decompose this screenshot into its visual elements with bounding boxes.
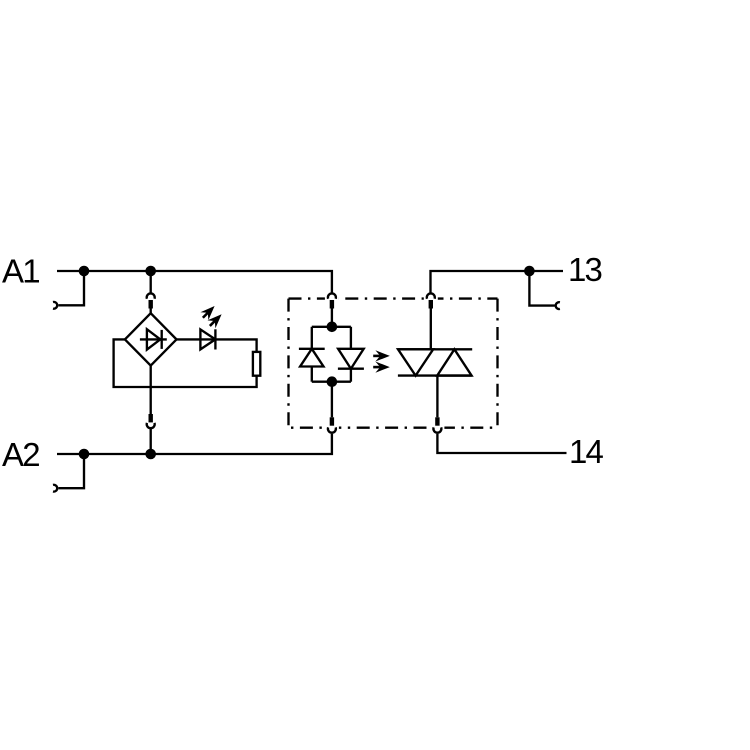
triac top line xyxy=(398,348,473,350)
wire loop top xyxy=(177,339,257,352)
triac left triangle xyxy=(398,349,433,375)
wire bridge bottom xyxy=(150,366,152,414)
svg-text:13: 13 xyxy=(568,251,602,288)
connector pin top triac xyxy=(429,300,433,309)
connector socket bottom input xyxy=(328,427,336,432)
svg-text:A1: A1 xyxy=(2,253,39,290)
input diode left bar xyxy=(299,348,325,350)
connector socket top triac xyxy=(427,293,435,298)
wire A2 rail xyxy=(57,433,332,454)
input diode right bar xyxy=(338,368,364,370)
wire bridge to A2 rail xyxy=(150,429,152,454)
triac bottom line xyxy=(398,374,472,376)
socket 13 terminal xyxy=(556,302,560,309)
connector socket bottom bridge xyxy=(147,423,155,428)
bridge inner diode bar xyxy=(161,330,163,349)
wire A2 test stub xyxy=(58,454,84,488)
optocoupler box right edge xyxy=(496,299,498,428)
wire loop left xyxy=(114,339,257,387)
connector socket top input xyxy=(328,293,336,298)
node input top xyxy=(327,322,338,333)
connector socket bottom triac xyxy=(433,427,441,432)
connector pin top bridge xyxy=(149,300,153,309)
node A1 junction 2 xyxy=(145,266,156,277)
node input bottom xyxy=(327,376,338,387)
optocoupler box left edge xyxy=(287,299,289,428)
connector pin bottom input xyxy=(330,417,334,425)
light arrow 1 xyxy=(373,350,390,361)
socket A1 terminal xyxy=(53,302,57,309)
bridge inner diode triangle xyxy=(147,329,160,349)
connector pin top input xyxy=(330,300,334,309)
wire A1 rail xyxy=(57,271,332,293)
LED bar xyxy=(214,329,216,349)
input diode left triangle xyxy=(300,349,323,367)
node A2 junction 2 xyxy=(145,449,156,460)
connector pin bottom triac xyxy=(435,417,439,425)
wire 13 test stub xyxy=(529,271,554,306)
box gaps at connectors xyxy=(325,293,339,305)
wire 14 rail xyxy=(437,433,566,453)
wire bridge to diamond xyxy=(150,309,152,314)
wire A1 to bridge connector xyxy=(150,271,152,293)
node A2 junction 1 xyxy=(79,449,90,460)
connector socket top bridge xyxy=(147,293,155,298)
wire input top xyxy=(331,309,333,327)
wire A1 test stub xyxy=(58,271,84,305)
resistor R xyxy=(253,352,260,376)
optocoupler box bottom edge xyxy=(289,427,498,429)
LED arrow 1 xyxy=(199,302,219,322)
wire triac top xyxy=(430,309,432,350)
svg-text:14: 14 xyxy=(569,433,604,470)
input diode right triangle xyxy=(338,349,364,369)
LED triangle xyxy=(200,329,215,349)
input diode pair frame xyxy=(311,327,313,349)
socket A2 terminal xyxy=(53,485,57,492)
triac right triangle xyxy=(437,349,471,375)
svg-text:A2: A2 xyxy=(2,436,39,473)
wire input bottom xyxy=(331,382,333,418)
wire 13 rail xyxy=(431,271,564,293)
light arrow 2 xyxy=(373,362,390,373)
node A1 junction 1 xyxy=(79,266,90,277)
optocoupler box top edge xyxy=(289,297,498,299)
wire triac bottom xyxy=(436,376,438,418)
bridge inner diode line xyxy=(140,338,167,340)
LED arrow 2 xyxy=(206,310,226,330)
bridge rectifier diamond xyxy=(125,313,177,365)
connector pin bottom bridge xyxy=(149,414,153,422)
node 13 junction xyxy=(524,266,535,277)
